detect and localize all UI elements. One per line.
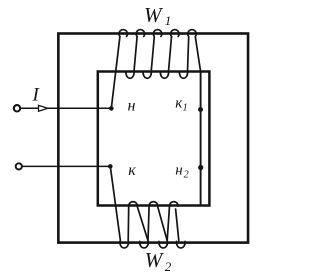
winding W1 end leg to window wire [195, 37, 200, 72]
winding W2 upper hook 3 [170, 202, 179, 206]
winding W1 turn arc 5 [188, 30, 197, 37]
winding W2 front leg 3 [167, 206, 169, 241]
svg-text:W: W [145, 248, 165, 272]
winding W1 lower hook 3 [160, 71, 168, 78]
node n2 (dot) [198, 165, 203, 170]
winding W1 turn arc 3 [153, 30, 161, 37]
winding W1 front leg 4 [188, 37, 189, 72]
svg-text:2: 2 [165, 259, 172, 274]
winding W1 front leg 1 [134, 37, 137, 72]
winding W2 diagonal 2 [158, 206, 168, 240]
winding W1 front leg 3 [169, 37, 172, 72]
winding W2 front leg 1 [127, 206, 130, 241]
winding W2 turn arc 1 [120, 241, 129, 248]
winding W2 upper hook 1 [129, 202, 138, 206]
winding W1 lower hook 1 [126, 71, 134, 78]
winding W2 lead-in wire from node k [110, 166, 120, 240]
terminal circle top [14, 105, 20, 111]
winding W1 turn arc 2 [136, 30, 145, 37]
winding W1 turn arc 4 [171, 30, 180, 37]
current arrow I (open triangle) [39, 105, 48, 111]
svg-text:W: W [144, 3, 164, 27]
svg-text:н: н [128, 98, 136, 115]
svg-text:1: 1 [183, 103, 188, 114]
svg-text:I: I [32, 85, 41, 106]
svg-text:к: к [128, 162, 136, 179]
window wire k1-n2 [200, 72, 202, 206]
core outer square [58, 34, 248, 243]
winding W1 front leg 2 [151, 37, 154, 72]
terminal circle bottom [16, 163, 22, 169]
winding W2 diagonal 3 [176, 209, 179, 241]
winding W2 front leg 2 [148, 206, 149, 241]
winding W2 turn arc 2 [140, 241, 149, 248]
svg-text:1: 1 [165, 13, 172, 28]
winding W2 diagonal 1 [137, 206, 148, 240]
wire: bottom terminal to node k [22, 165, 110, 167]
winding W2 upper hook 2 [149, 202, 158, 206]
svg-text:н: н [175, 163, 182, 179]
winding W2 turn arc 4 [177, 241, 186, 248]
winding W1 lower hook 2 [143, 71, 151, 78]
wire: top terminal to node n [20, 107, 111, 109]
winding W1 lead-in wire from node n [111, 37, 120, 109]
node n (dot) [109, 106, 114, 111]
node k (dot) [108, 164, 113, 169]
winding W1 lower hook 4 [179, 71, 187, 78]
node k1 (dot) [198, 107, 203, 112]
core inner square (window) [98, 72, 210, 206]
svg-text:2: 2 [184, 169, 189, 180]
winding W2 turn arc 3 [159, 241, 168, 248]
winding W1 turn arc 1 [119, 30, 128, 37]
